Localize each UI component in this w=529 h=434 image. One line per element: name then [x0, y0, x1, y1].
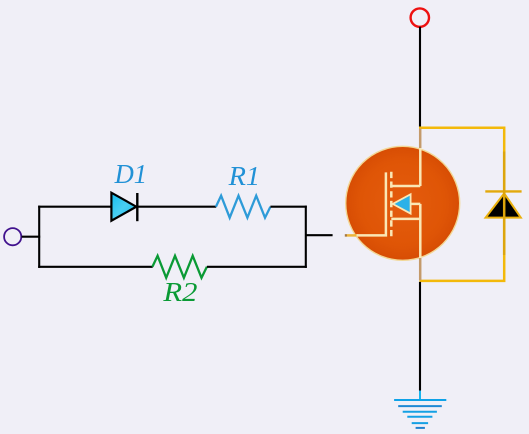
wire: source to ground [419, 282, 421, 391]
Q1 symbol [357, 148, 421, 258]
body diode triangle [486, 193, 521, 217]
diode D1 [111, 193, 137, 222]
svg-text:R2: R2 [162, 277, 197, 307]
wire: top terminal to drain node [419, 27, 421, 127]
body diode cathode bar [485, 190, 521, 192]
svg-text:R1: R1 [228, 161, 261, 191]
wire: R2 to right branch node [207, 266, 307, 268]
ground [394, 391, 446, 428]
body diode lead [503, 152, 506, 256]
resistor R2 [152, 256, 207, 278]
Q1 source lead [419, 258, 422, 280]
wire: bottom branch, node to R2 [38, 266, 153, 268]
terminal V+ (top) [411, 8, 429, 26]
transistor Q1 body (NMOS) [346, 146, 460, 260]
wire: right vertical branch [305, 206, 307, 268]
wire: input terminal to left branch node [22, 236, 41, 238]
Q1 drain lead [419, 129, 422, 150]
svg-text:D1: D1 [114, 159, 147, 189]
Q1 gate lead [345, 234, 347, 237]
wire: top branch, node to D1 anode [38, 206, 112, 208]
wire: gate stub from divider node [306, 234, 333, 236]
wire: left vertical branch [38, 206, 40, 268]
wire: D1 cathode to R1 [137, 206, 216, 208]
Q1 substrate arrow [393, 194, 411, 213]
input terminal (port) [4, 228, 21, 245]
wire: body diode loop [419, 128, 504, 281]
wire: R1 to right branch node [270, 206, 306, 208]
resistor R1 [216, 196, 271, 218]
